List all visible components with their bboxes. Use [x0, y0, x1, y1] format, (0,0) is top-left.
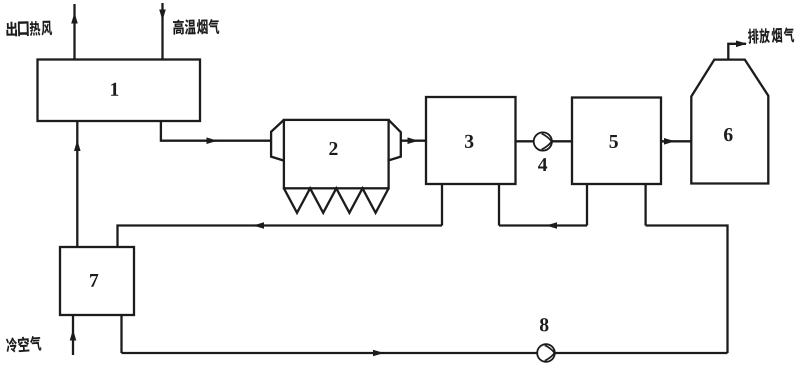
label gaowenyanqi 高温烟气: [173, 19, 219, 35]
reactor 3: [426, 97, 516, 184]
wire fan4 to box5: [551, 140, 572, 142]
dust collector 2 body: [284, 120, 389, 188]
label 7: [90, 274, 98, 287]
wire return line to box7: [118, 226, 443, 248]
label 1: [111, 83, 118, 96]
label 5: [610, 135, 618, 148]
wire box3 bottom-right drop: [498, 184, 500, 226]
arrow cold air up: [70, 330, 77, 341]
wire box1 down to box7: [76, 121, 78, 247]
wire box3 to fan4: [516, 140, 535, 142]
arrow return left: [253, 222, 264, 229]
wire box1 to ESP inlet: [161, 121, 272, 141]
stack 6: [691, 60, 768, 184]
dust collector 2 hoppers: [284, 188, 389, 213]
arrow hot-air up: [71, 13, 78, 24]
label paifangyanqi 排放烟气: [748, 27, 795, 44]
heat exchanger 1: [38, 60, 201, 122]
wire hot-air outlet riser: [73, 4, 75, 60]
dust collector 2 outlet nozzle: [389, 120, 401, 160]
wire box5 right leg to down-comer: [646, 226, 728, 354]
label 3: [465, 135, 473, 148]
dust collector 2 inlet nozzle: [271, 120, 284, 161]
wire stack outlet: [728, 44, 746, 60]
wire box5 bottom-left drop: [586, 184, 588, 226]
arrow exhaust: [736, 41, 747, 48]
label 2: [329, 142, 337, 155]
label 8: [540, 318, 549, 331]
arrow into ESP: [207, 137, 218, 144]
arrow bottom right-flow: [373, 350, 384, 357]
wire box5 to box3 return: [499, 224, 587, 226]
wire box3 bottom-left drop: [441, 184, 443, 226]
arrow into stack: [664, 138, 675, 145]
air preheater 7: [60, 247, 134, 315]
arrow up into box1: [74, 140, 81, 151]
wire flue-gas inlet drop: [161, 3, 163, 60]
label chukoureifeng 出口热风: [6, 21, 52, 37]
fan 8: [537, 344, 555, 362]
label 6: [724, 128, 733, 141]
wire cold air inlet: [72, 315, 74, 355]
fan 4: [534, 132, 552, 150]
label 4: [538, 158, 547, 171]
wire box7 bottom drop: [120, 315, 122, 353]
wire bottom main line: [122, 352, 728, 354]
arrow into box3: [408, 137, 419, 144]
wire ESP to box3: [401, 140, 426, 142]
label lengkongqi 冷空气: [6, 335, 42, 353]
wire box5 bottom-right drop: [644, 184, 646, 226]
wire box5 to stack: [661, 140, 691, 142]
arrow flue-gas down: [159, 10, 166, 21]
arrow left into box3 leg: [546, 222, 557, 229]
reactor 5: [572, 98, 661, 185]
